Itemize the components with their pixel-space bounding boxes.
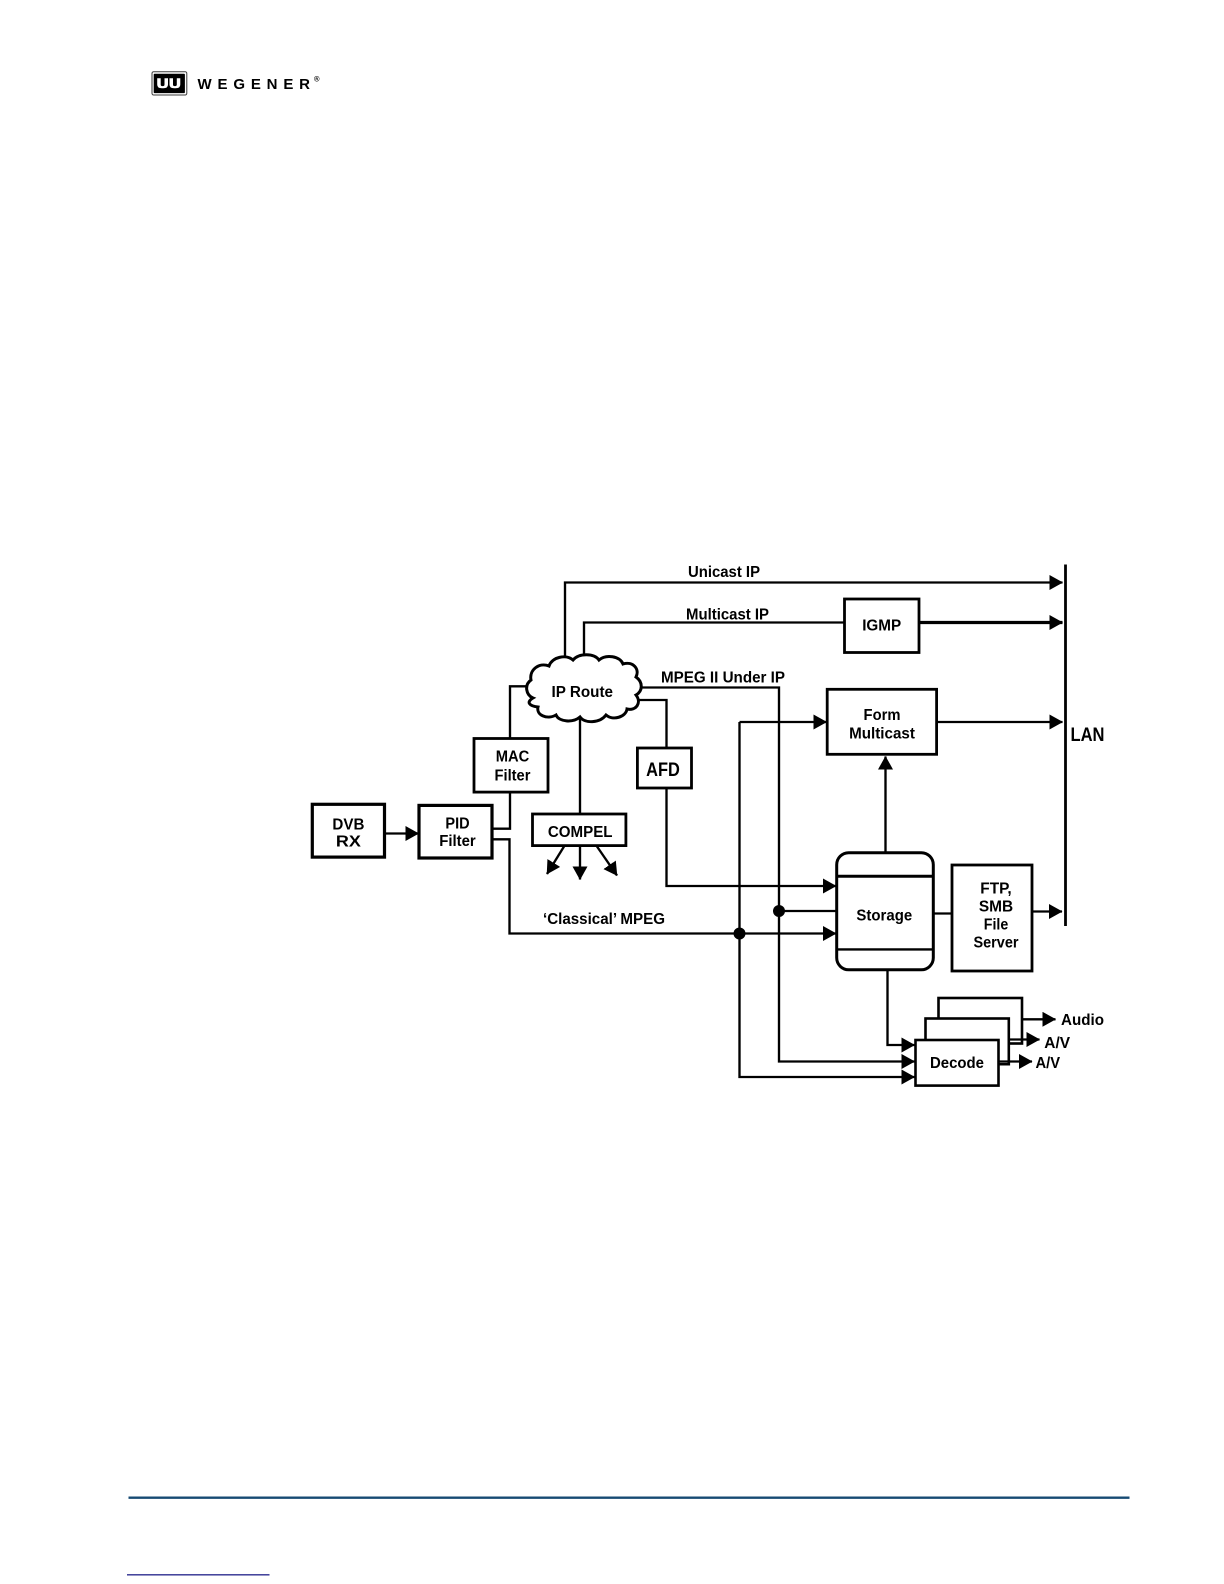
wire cloud to COMPEL xyxy=(579,718,581,815)
svg-text:LAN: LAN xyxy=(1071,724,1105,746)
wire MAC Filter to PID Filter xyxy=(492,791,510,829)
wire COMPEL output arrow left xyxy=(547,847,564,875)
block Decode middle xyxy=(926,1019,1009,1065)
wire MPEG II Under IP: cloud right, down, into Decode middle input xyxy=(634,688,915,1062)
svg-text:Storage: Storage xyxy=(856,907,912,924)
wire Storage down to Decode top input xyxy=(888,969,915,1045)
wire into Form Multicast xyxy=(740,721,827,723)
wire LAN bus xyxy=(1064,565,1067,927)
wire Decode to A/V lower xyxy=(999,1060,1033,1062)
wire IGMP to LAN xyxy=(918,621,1063,624)
svg-text:‘Classical’ MPEG: ‘Classical’ MPEG xyxy=(543,911,665,928)
svg-text:Unicast IP: Unicast IP xyxy=(688,564,760,581)
svg-text:A/V: A/V xyxy=(1036,1055,1061,1072)
svg-text:Audio: Audio xyxy=(1061,1012,1104,1029)
rule footnote separator xyxy=(127,1574,270,1576)
wire Storage up to Form Multicast xyxy=(884,757,886,854)
svg-text:®: ® xyxy=(314,75,320,84)
svg-text:A/V: A/V xyxy=(1044,1035,1070,1052)
node junction on MPEG-II line xyxy=(773,905,785,917)
wire DVB RX to PID Filter xyxy=(385,832,419,834)
wire COMPEL output arrow right xyxy=(597,847,617,876)
block DVB RX xyxy=(312,804,384,857)
svg-text:PID: PID xyxy=(445,815,469,832)
svg-text:SMB: SMB xyxy=(979,899,1013,916)
node junction on Classical MPEG line xyxy=(734,928,746,940)
block MAC Filter xyxy=(474,739,548,793)
wire AFD to Storage top input xyxy=(667,787,837,886)
wire FTP server to LAN xyxy=(1032,910,1062,912)
svg-text:WEGENER: WEGENER xyxy=(198,76,317,93)
wire Storage to FTP server xyxy=(933,912,952,914)
block COMPEL xyxy=(533,814,626,846)
wire cloud to MAC Filter xyxy=(510,686,530,740)
svg-text:MPEG II Under IP: MPEG II Under IP xyxy=(661,670,785,687)
svg-text:COMPEL: COMPEL xyxy=(548,824,613,841)
wire cloud to AFD xyxy=(632,700,667,750)
svg-text:Filter: Filter xyxy=(439,833,476,850)
block Decode back xyxy=(939,998,1023,1044)
wire Decode to Audio xyxy=(1022,1018,1056,1020)
wire Multicast IP: cloud top to IGMP xyxy=(584,623,845,663)
wire COMPEL output arrow center xyxy=(579,846,581,880)
svg-text:DVB: DVB xyxy=(332,817,364,834)
wire Form Multicast to LAN xyxy=(937,721,1063,723)
block IGMP xyxy=(845,599,920,653)
block Form Multicast xyxy=(827,689,936,754)
svg-text:IGMP: IGMP xyxy=(862,618,901,635)
wire Unicast IP: cloud top to LAN xyxy=(565,583,1063,663)
svg-text:Decode: Decode xyxy=(930,1055,984,1072)
wire Classical MPEG: PID Filter down and right to Storage bottom input xyxy=(492,839,836,933)
svg-text:FTP,: FTP, xyxy=(980,881,1011,898)
rule horizontal separator xyxy=(129,1497,1130,1499)
block Storage xyxy=(837,853,934,970)
cloud IP Route xyxy=(527,655,642,722)
svg-text:Multicast: Multicast xyxy=(849,726,915,743)
svg-text:Filter: Filter xyxy=(495,768,531,785)
svg-text:MAC: MAC xyxy=(496,748,530,765)
block PID Filter xyxy=(419,805,492,858)
logo Wegener mark xyxy=(152,72,187,95)
svg-text:Server: Server xyxy=(973,935,1018,952)
svg-text:Multicast IP: Multicast IP xyxy=(686,607,769,624)
block AFD xyxy=(637,748,691,788)
block Decode front xyxy=(916,1040,999,1086)
wire Decode to A/V upper xyxy=(1009,1038,1040,1040)
svg-text:AFD: AFD xyxy=(646,759,680,781)
svg-text:IP Route: IP Route xyxy=(552,684,614,701)
wire branch to Storage middle input xyxy=(779,910,837,912)
logo Wegener wordmark xyxy=(198,75,321,93)
block FTP SMB File Server xyxy=(952,865,1032,971)
svg-text:RX: RX xyxy=(336,834,361,851)
svg-text:File: File xyxy=(984,917,1009,934)
svg-text:Form: Form xyxy=(864,707,901,724)
wire vertical feed down to Decode bottom input xyxy=(740,722,915,1077)
